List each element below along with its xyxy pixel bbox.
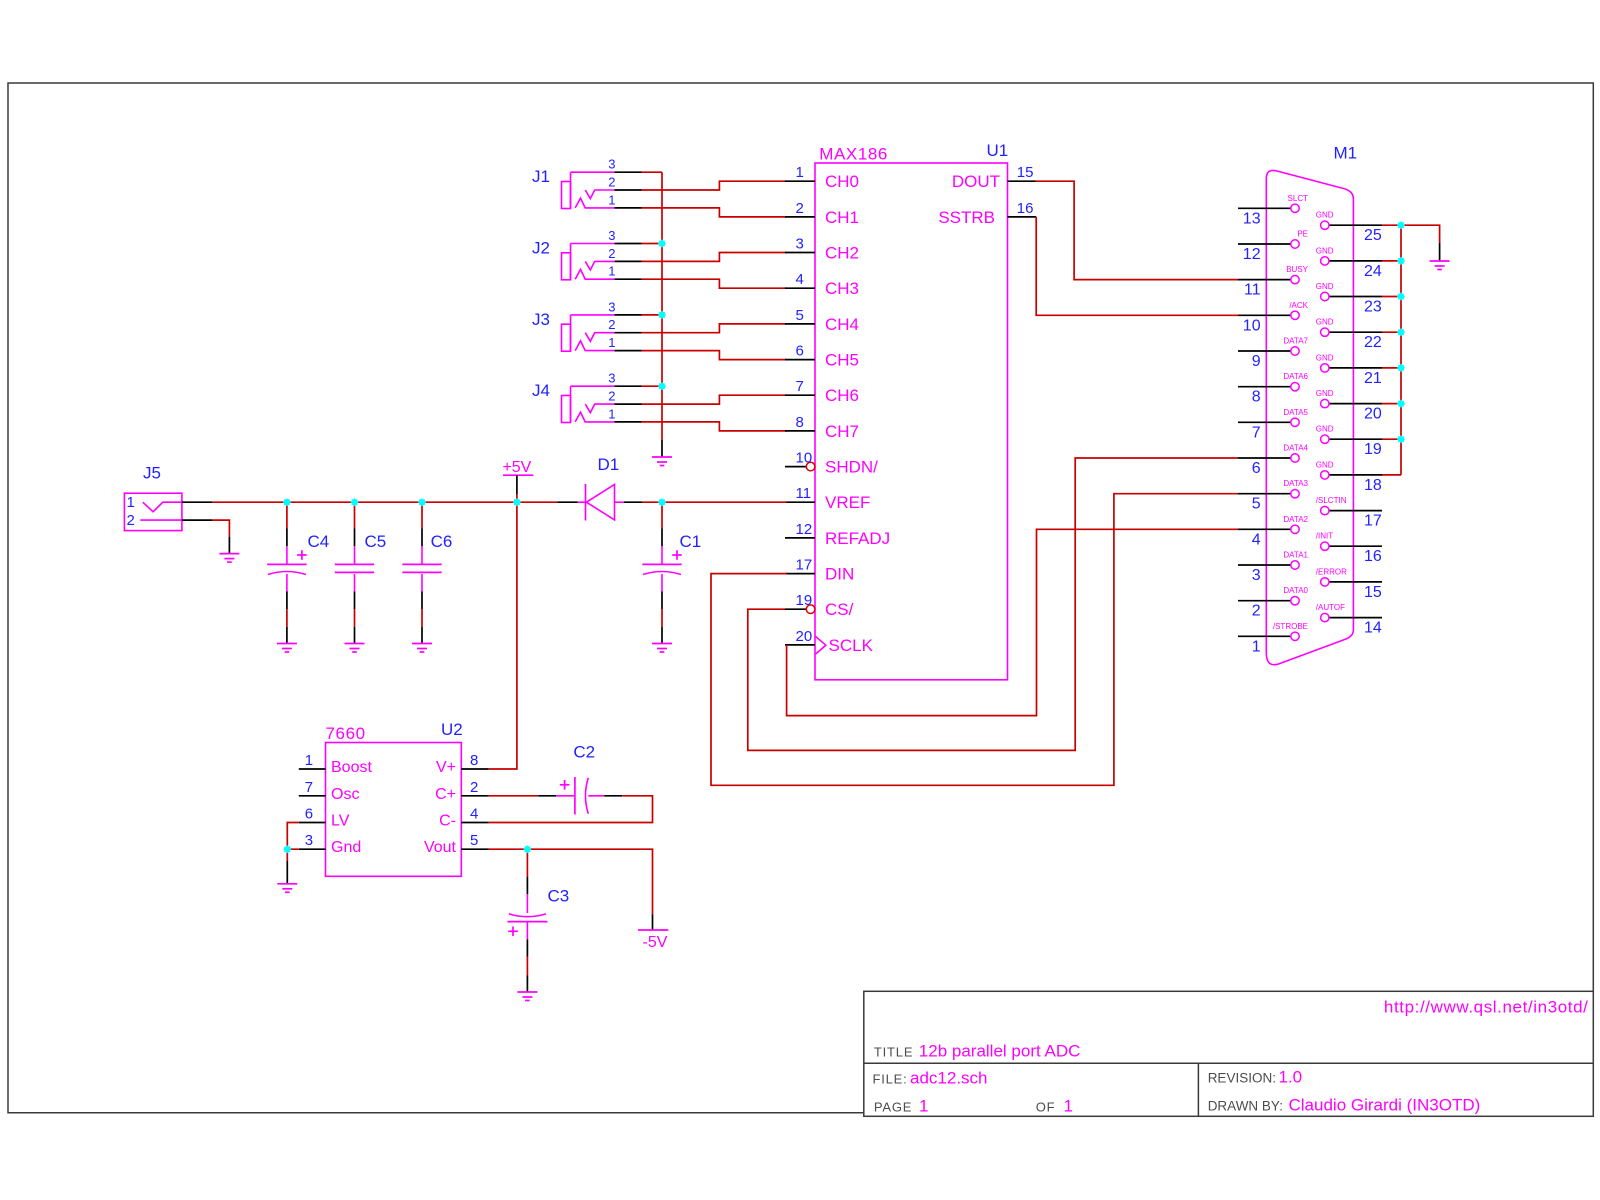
svg-text:J5: J5	[143, 464, 161, 483]
title block FILE field	[873, 1069, 988, 1088]
svg-text:LV: LV	[331, 813, 350, 830]
svg-text:GND: GND	[1316, 318, 1334, 327]
svg-text:3: 3	[608, 299, 615, 314]
svg-text:7: 7	[305, 779, 313, 796]
ground under C4	[277, 644, 297, 653]
U2 pin 3 Gnd	[299, 832, 361, 856]
ground jack bus	[652, 440, 672, 466]
svg-text:20: 20	[796, 628, 813, 645]
svg-text:SCLK: SCLK	[829, 636, 874, 655]
wire M1 pin 18 to GND bus	[1382, 474, 1401, 476]
svg-text:SSTRB: SSTRB	[938, 208, 995, 227]
svg-text:1: 1	[608, 406, 615, 421]
stereo jack J3	[532, 299, 642, 351]
svg-text:14: 14	[1364, 620, 1382, 637]
svg-text:2: 2	[796, 200, 804, 217]
capacitor C2	[538, 743, 622, 815]
svg-text:http://www.qsl.net/in3otd/: http://www.qsl.net/in3otd/	[1384, 998, 1589, 1017]
svg-text:GND: GND	[1316, 389, 1334, 398]
svg-text:U2: U2	[441, 720, 463, 739]
wire jack ground bus vertical	[661, 172, 663, 440]
svg-text:3: 3	[1252, 567, 1261, 584]
svg-text:J4: J4	[532, 381, 550, 400]
wire U1 DIN to M1 pin 5 DATA3	[711, 494, 1238, 786]
svg-text:CH1: CH1	[825, 208, 859, 227]
svg-text:1: 1	[1064, 1096, 1073, 1115]
wire C1 to ground	[661, 609, 663, 643]
wire U1 SCLK to M1 pin 4 DATA2	[787, 529, 1238, 715]
svg-text:GND: GND	[1316, 211, 1334, 220]
U1 pin 2 CH1	[785, 200, 859, 227]
svg-text:C2: C2	[573, 743, 595, 762]
svg-text:3: 3	[608, 228, 615, 243]
svg-text:1: 1	[1252, 638, 1261, 655]
U1 pin 10 SHDN/	[785, 450, 878, 477]
svg-text:4: 4	[796, 271, 804, 288]
svg-text:Vout: Vout	[424, 839, 457, 856]
svg-text:7660: 7660	[326, 724, 366, 743]
svg-text:25: 25	[1364, 227, 1382, 244]
svg-text:V+: V+	[436, 759, 456, 776]
svg-text:7: 7	[1252, 424, 1261, 441]
wire C3 to ground	[526, 957, 528, 993]
svg-text:D1: D1	[598, 455, 620, 474]
wire U2 C+ to C2	[489, 795, 539, 797]
wire M1 pin 22 to GND bus	[1382, 331, 1401, 333]
IC U2 7660 body	[326, 720, 463, 876]
svg-text:CH4: CH4	[825, 315, 859, 334]
wire M1 pin 24 to GND bus	[1382, 260, 1401, 262]
capacitor C5	[335, 529, 386, 610]
M1 pin 4 DATA2	[1238, 515, 1309, 549]
svg-text:GND: GND	[1316, 460, 1334, 469]
U1 pin 8 CH7	[785, 414, 859, 441]
U1 pin 17 DIN	[785, 557, 854, 584]
svg-text:M1: M1	[1334, 144, 1358, 163]
junction GND bus pin 24	[1397, 257, 1405, 265]
svg-text:23: 23	[1364, 299, 1382, 316]
wire +5V rail to C6	[421, 504, 423, 528]
svg-text:/AUTOF: /AUTOF	[1316, 603, 1345, 612]
wire DOUT to M1 pin 11 BUSY	[1036, 181, 1238, 279]
junction J4 pin3 / ground bus	[658, 382, 666, 390]
svg-text:16: 16	[1017, 200, 1034, 217]
ground J5	[219, 537, 239, 562]
svg-text:DIN: DIN	[825, 565, 854, 584]
svg-text:20: 20	[1364, 406, 1382, 423]
svg-text:10: 10	[796, 450, 813, 467]
svg-text:19: 19	[796, 592, 813, 609]
svg-text:1.0: 1.0	[1279, 1068, 1303, 1087]
M1 pin 21 GND	[1316, 353, 1382, 387]
M1 pin 15 /ERROR	[1316, 567, 1382, 601]
svg-text:2: 2	[470, 779, 478, 796]
M1 pin 2 DATA0	[1238, 586, 1309, 620]
svg-text:Claudio Girardi (IN3OTD): Claudio Girardi (IN3OTD)	[1289, 1095, 1481, 1114]
svg-text:CH7: CH7	[825, 422, 859, 441]
U2 pin 4 C-	[439, 806, 488, 830]
svg-text:C-: C-	[439, 813, 456, 830]
junction J2 pin3 / ground bus	[658, 239, 666, 247]
svg-text:/ACK: /ACK	[1289, 301, 1308, 310]
wire VREF net D1 to C1 to U1	[642, 501, 787, 503]
junction U2 LV-Gnd	[283, 845, 291, 853]
svg-text:DOUT: DOUT	[952, 172, 1000, 191]
U2 pin 6 LV	[299, 806, 350, 830]
wire M1 pin 20 to GND bus	[1382, 403, 1401, 405]
wire M1 pin 19 to GND bus	[1382, 438, 1401, 440]
svg-text:MAX186: MAX186	[819, 144, 888, 163]
svg-text:17: 17	[796, 557, 813, 574]
svg-text:CH2: CH2	[825, 244, 859, 263]
M1 pin 12 PE	[1238, 230, 1308, 264]
svg-text:GND: GND	[1316, 425, 1334, 434]
stereo jack J4	[532, 371, 642, 423]
svg-text:2: 2	[608, 246, 615, 261]
svg-text:13: 13	[1243, 210, 1261, 227]
svg-text:BUSY: BUSY	[1286, 265, 1308, 274]
M1 pin 5 DATA3	[1238, 479, 1309, 513]
wire J1 pin1 to U1 CH1	[642, 208, 787, 217]
svg-text:1: 1	[919, 1096, 928, 1115]
junction +5V rail / C4	[283, 498, 291, 506]
ground under C1	[652, 644, 672, 653]
wire C2 to U2 C-	[489, 796, 653, 823]
M1 pin 19 GND	[1316, 425, 1382, 459]
svg-text:J2: J2	[532, 239, 550, 258]
svg-text:21: 21	[1364, 370, 1382, 387]
junction +5V rail / C6	[418, 498, 426, 506]
M1 pin 18 GND	[1316, 460, 1382, 494]
svg-text:C6: C6	[431, 532, 453, 551]
svg-text:C5: C5	[365, 532, 387, 551]
svg-text:Gnd: Gnd	[331, 839, 361, 856]
svg-text:2: 2	[608, 317, 615, 332]
svg-text:12: 12	[1243, 246, 1261, 263]
wire J4 pin2 to U1 CH6	[642, 395, 787, 404]
M1 pin 6 DATA4	[1238, 444, 1309, 478]
svg-text:22: 22	[1364, 334, 1382, 351]
U2 pin 8 V+	[436, 752, 489, 776]
ground under C6	[412, 644, 432, 653]
wire J1 pin2 to U1 CH0	[642, 181, 787, 190]
M1 pin 20 GND	[1316, 389, 1382, 423]
capacitor C1	[642, 529, 701, 610]
svg-text:6: 6	[305, 806, 313, 823]
title block DRAWN BY field	[1208, 1095, 1481, 1114]
wire J5 pin2 to ground	[212, 520, 229, 537]
M1 pin 7 DATA5	[1238, 408, 1309, 442]
wire U2 Vout to -5V	[489, 849, 653, 914]
U2 pin 1 Boost	[299, 752, 373, 776]
svg-text:7: 7	[796, 378, 804, 395]
svg-text:11: 11	[1244, 282, 1261, 299]
junction +5V rail / C5	[350, 498, 358, 506]
svg-text:12b parallel port ADC: 12b parallel port ADC	[919, 1042, 1081, 1061]
svg-text:PAGE: PAGE	[874, 1099, 912, 1114]
svg-text:DATA0: DATA0	[1283, 586, 1308, 595]
junction VREF / C1	[658, 498, 666, 506]
title block url text	[1384, 998, 1589, 1017]
svg-text:3: 3	[796, 236, 804, 253]
svg-text:/STROBE: /STROBE	[1273, 622, 1308, 631]
svg-text:U1: U1	[986, 141, 1008, 160]
svg-text:+5V: +5V	[502, 459, 531, 476]
capacitor C4	[267, 529, 329, 610]
capacitor C3	[507, 877, 569, 957]
M1 pin 9 DATA7	[1238, 337, 1309, 371]
M1 pin 3 DATA1	[1238, 551, 1309, 585]
svg-text:REVISION:: REVISION:	[1208, 1071, 1276, 1086]
diode D1	[578, 455, 625, 521]
svg-text:GND: GND	[1316, 246, 1334, 255]
svg-text:DATA4: DATA4	[1283, 444, 1308, 453]
svg-text:15: 15	[1364, 584, 1382, 601]
wire J3 pin1 to U1 CH5	[642, 351, 787, 360]
svg-text:8: 8	[1252, 389, 1261, 406]
wire U2 V+ to +5V rail	[489, 504, 517, 769]
svg-text:17: 17	[1364, 513, 1382, 530]
M1 pin 8 DATA6	[1238, 372, 1309, 406]
M1 pin 24 GND	[1316, 246, 1382, 280]
U1 pin 1 CH0	[785, 164, 859, 191]
svg-text:GND: GND	[1316, 282, 1334, 291]
svg-text:4: 4	[1252, 531, 1261, 548]
svg-text:5: 5	[796, 307, 804, 324]
wire U2 LV to Gnd	[287, 823, 299, 850]
connector M1 DB25 outline	[1266, 144, 1357, 665]
wire +5V rail to C1	[661, 504, 663, 528]
svg-text:5: 5	[470, 832, 478, 849]
wire C3 top	[526, 851, 528, 877]
svg-text:GND: GND	[1316, 353, 1334, 362]
U1 pin 15 DOUT	[952, 164, 1036, 191]
+5V power symbol	[502, 459, 533, 502]
svg-text:10: 10	[1243, 317, 1261, 334]
wire J4 pin3 to bus	[642, 385, 663, 387]
wire C5 to ground	[354, 609, 356, 643]
svg-text:4: 4	[470, 806, 478, 823]
wire M1 pin 23 to GND bus	[1382, 296, 1401, 298]
M1 pin 11 BUSY	[1238, 265, 1309, 299]
svg-text:8: 8	[796, 414, 804, 431]
svg-text:CH5: CH5	[825, 351, 859, 370]
svg-text:8: 8	[470, 752, 478, 769]
U2 pin 7 Osc	[299, 779, 360, 803]
U1 pin 6 CH5	[785, 343, 859, 370]
wire J3 pin2 to U1 CH4	[642, 324, 787, 333]
wire +5V rail J5 to D1	[212, 501, 557, 503]
M1 pin 16 /INIT	[1316, 532, 1382, 566]
svg-text:DATA6: DATA6	[1283, 372, 1308, 381]
svg-text:Osc: Osc	[331, 786, 359, 803]
wire +5V rail to C4	[286, 504, 288, 528]
svg-text:5: 5	[1252, 496, 1261, 513]
svg-text:6: 6	[1252, 460, 1261, 477]
M1 pin 14 /AUTOF	[1316, 603, 1382, 637]
U1 pin 11 VREF	[785, 485, 870, 512]
svg-text:2: 2	[608, 389, 615, 404]
capacitor C6	[402, 529, 452, 610]
svg-text:/SLCTIN: /SLCTIN	[1316, 496, 1347, 505]
svg-text:9: 9	[1252, 353, 1261, 370]
svg-text:C+: C+	[435, 786, 456, 803]
connector J5	[124, 464, 212, 531]
D1 cathode pin stub	[557, 501, 577, 503]
svg-text:Boost: Boost	[331, 759, 372, 776]
IC U1 MAX186 body	[815, 141, 1008, 680]
svg-text:-5V: -5V	[643, 934, 668, 951]
M1 pin 25 GND	[1316, 211, 1382, 245]
svg-text:CH3: CH3	[825, 279, 859, 298]
svg-text:6: 6	[796, 343, 804, 360]
D1 anode pin stub	[624, 501, 642, 503]
junction +5V rail / +5V symbol	[513, 498, 521, 506]
M1 pin 23 GND	[1316, 282, 1382, 316]
wire M1 pin 21 to GND bus	[1382, 367, 1401, 369]
svg-text:3: 3	[305, 832, 313, 849]
svg-text:C4: C4	[308, 532, 330, 551]
svg-text:C3: C3	[548, 887, 570, 906]
svg-text:15: 15	[1017, 164, 1034, 181]
junction GND bus pin 21	[1397, 364, 1405, 372]
wire J3 pin3 to bus	[642, 314, 663, 316]
ground U2	[277, 884, 297, 893]
junction GND bus pin 19	[1397, 435, 1405, 443]
U2 pin 2 C+	[435, 779, 489, 803]
U1 pin 12 REFADJ	[785, 521, 890, 548]
svg-text:DATA1: DATA1	[1283, 551, 1308, 560]
ground under C5	[345, 644, 365, 653]
svg-text:/ERROR: /ERROR	[1316, 567, 1347, 576]
junction J3 pin3 / ground bus	[658, 311, 666, 319]
wire U1 CS/ to M1 pin 6 DATA4	[748, 458, 1238, 750]
svg-text:11: 11	[796, 485, 812, 502]
junction GND bus pin 22	[1397, 328, 1405, 336]
svg-text:FILE:: FILE:	[873, 1072, 908, 1087]
svg-text:J1: J1	[532, 167, 550, 186]
title block frame	[864, 991, 1594, 1116]
wire +5V rail to C5	[354, 504, 356, 528]
U1 pin 19 CS/	[785, 592, 854, 619]
M1 pin 17 /SLCTIN	[1316, 496, 1382, 529]
M1 pin 13 SLCT	[1238, 194, 1308, 228]
wire GND bus to ground symbol	[1401, 225, 1440, 243]
junction GND bus pin 23	[1397, 292, 1405, 300]
svg-text:18: 18	[1364, 477, 1382, 494]
svg-text:1: 1	[608, 264, 615, 279]
wire J2 pin3 to bus	[642, 243, 663, 245]
svg-text:12: 12	[796, 521, 813, 538]
wire J4 pin1 to U1 CH7	[642, 422, 787, 431]
junction GND bus pin 25	[1397, 221, 1405, 229]
svg-text:C1: C1	[680, 532, 702, 551]
svg-text:adc12.sch: adc12.sch	[910, 1069, 988, 1088]
title block REVISION field	[1208, 1068, 1302, 1087]
svg-text:SLCT: SLCT	[1288, 194, 1309, 203]
U1 pin 3 CH2	[785, 236, 859, 263]
title block PAGE field	[874, 1096, 1073, 1115]
svg-text:REFADJ: REFADJ	[825, 529, 890, 548]
ground M1	[1430, 243, 1450, 270]
wire C4 to ground	[286, 609, 288, 643]
svg-text:OF: OF	[1036, 1099, 1056, 1114]
svg-text:1: 1	[608, 192, 615, 207]
wire M1 GND bus vertical	[1400, 225, 1402, 475]
svg-text:DATA5: DATA5	[1283, 408, 1308, 417]
svg-text:DRAWN BY:: DRAWN BY:	[1208, 1098, 1283, 1113]
junction GND bus pin 20	[1397, 399, 1405, 407]
svg-text:3: 3	[608, 157, 615, 172]
svg-text:DATA7: DATA7	[1283, 337, 1308, 346]
M1 pin 10 /ACK	[1238, 301, 1309, 335]
svg-text:DATA2: DATA2	[1283, 515, 1308, 524]
wire J2 pin2 to U1 CH2	[642, 253, 787, 262]
svg-text:24: 24	[1364, 263, 1382, 280]
title block TITLE field	[874, 1042, 1080, 1061]
svg-text:3: 3	[608, 371, 615, 386]
svg-text:1: 1	[796, 164, 804, 181]
M1 pin 1 /STROBE	[1238, 622, 1308, 656]
svg-text:1: 1	[305, 752, 313, 769]
ground under C3	[517, 992, 537, 1001]
U2 pin 5 Vout	[424, 832, 489, 856]
svg-text:DATA3: DATA3	[1283, 479, 1308, 488]
U1 pin 7 CH6	[785, 378, 859, 405]
wire J2 pin1 to U1 CH3	[642, 279, 787, 288]
junction Vout / C3	[523, 845, 531, 853]
wire C6 to ground	[421, 609, 423, 643]
svg-text:SHDN/: SHDN/	[825, 458, 878, 477]
svg-text:J3: J3	[532, 310, 550, 329]
wire M1 pin 25 to GND bus	[1382, 224, 1401, 226]
U1 pin 5 CH4	[785, 307, 859, 334]
svg-text:16: 16	[1364, 548, 1382, 565]
svg-text:2: 2	[1252, 603, 1261, 620]
svg-text:CH6: CH6	[825, 386, 859, 405]
svg-text:PE: PE	[1297, 230, 1308, 239]
wire J1 pin3 to bus	[642, 171, 663, 173]
svg-text:19: 19	[1364, 441, 1382, 458]
U1 pin 20 SCLK	[785, 628, 874, 655]
svg-text:CS/: CS/	[825, 600, 854, 619]
-5V power symbol	[638, 914, 668, 951]
svg-text:VREF: VREF	[825, 493, 870, 512]
U1 pin 4 CH3	[785, 271, 859, 298]
wire SSTRB to M1 pin 10 /ACK	[1036, 217, 1238, 315]
svg-text:/INIT: /INIT	[1316, 532, 1333, 541]
stereo jack J2	[532, 228, 642, 280]
svg-text:1: 1	[608, 335, 615, 350]
svg-text:CH0: CH0	[825, 172, 859, 191]
svg-text:2: 2	[608, 175, 615, 190]
svg-text:2: 2	[127, 512, 135, 529]
wire U2 Gnd down	[286, 849, 288, 884]
U1 pin 16 SSTRB	[938, 200, 1036, 227]
svg-text:1: 1	[127, 494, 135, 511]
stereo jack J1	[532, 157, 642, 209]
svg-text:TITLE: TITLE	[874, 1044, 913, 1059]
M1 pin 22 GND	[1316, 318, 1382, 352]
